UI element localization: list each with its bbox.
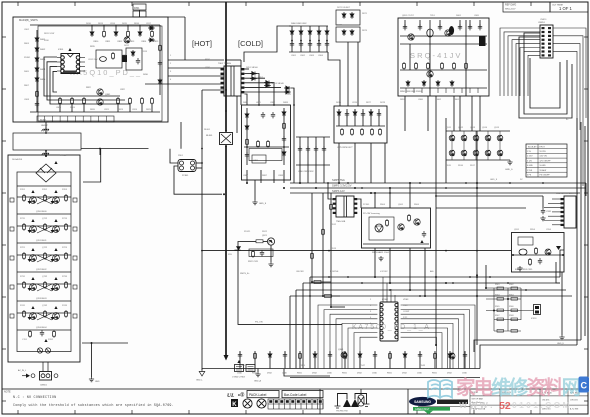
- wire row divider: [17, 329, 71, 331]
- capacitor C891: [306, 146, 310, 152]
- wire fb bottom rail: [363, 243, 429, 245]
- transistor Q742: [53, 313, 60, 320]
- capacitor: [403, 24, 407, 30]
- wire secondary: [245, 82, 274, 84]
- wire v294 to rail: [293, 88, 295, 183]
- wire grid column: [326, 26, 328, 52]
- isolation boundary line HOT/COLD: [225, 2, 227, 131]
- bell triangle 2: [351, 399, 359, 407]
- spacer: [235, 239, 237, 241]
- svg-text:S-GND: S-GND: [540, 165, 547, 167]
- svg-text:GND_D: GND_D: [557, 343, 565, 345]
- wire row subdivider b: [17, 225, 71, 227]
- diode D861: [299, 29, 303, 36]
- wire v312: [311, 193, 313, 282]
- resistor R911: [330, 203, 333, 211]
- svg-text:R813: R813: [98, 23, 104, 25]
- capacitor C885: [261, 112, 265, 118]
- svg-text:K A 7 5 0 0 _ P D _ 1 _ A: K A 7 5 0 0 _ P D _ 1 _ A: [352, 324, 429, 331]
- junction: [246, 182, 248, 184]
- logo K mark: [231, 399, 238, 407]
- open ground triangle GND_L: [199, 369, 205, 377]
- title header box CUT PAGE: [550, 2, 588, 12]
- svg-text:GND_L: GND_L: [196, 380, 204, 382]
- resistor: [83, 97, 86, 105]
- wire row subdivider c: [17, 254, 71, 256]
- watermark blue logo: [579, 377, 590, 393]
- IC U902 pins: [380, 303, 398, 338]
- capacitor C761: [40, 330, 44, 336]
- wire v486: [485, 265, 487, 288]
- svg-text:CN-LVDS CONNECTOR: CN-LVDS CONNECTOR: [556, 193, 579, 195]
- connector CN851 body: [540, 25, 553, 58]
- junction: [330, 306, 332, 308]
- svg-text:H.DRIVE: H.DRIVE: [330, 271, 339, 273]
- svg-text:Q801: Q801: [105, 94, 111, 96]
- wire bus2 drop: [302, 283, 304, 369]
- svg-text:A. N. RIM: A. N. RIM: [570, 408, 579, 411]
- diode D853: [264, 81, 271, 85]
- svg-text:R703: R703: [62, 189, 68, 191]
- svg-text:C824: C824: [132, 109, 138, 111]
- transformer T1 core: [224, 66, 241, 96]
- wire primary to T1 b: [168, 67, 224, 69]
- wire fb to bus3: [409, 248, 411, 290]
- resistor R761: [29, 330, 32, 338]
- wire stub: [83, 104, 85, 112]
- diode D802: [35, 46, 39, 53]
- wire ladder col: [315, 137, 317, 165]
- svg-text:T801 TRANS: T801 TRANS: [218, 62, 232, 65]
- svg-text:SRQ-41JV: SRQ-41JV: [505, 9, 516, 11]
- wire row divider: [17, 213, 71, 215]
- wire primary to T1: [168, 59, 224, 61]
- ground cluster: [268, 262, 273, 267]
- diode D951 dark: [556, 246, 561, 250]
- svg-text:D815: D815: [122, 23, 128, 25]
- svg-text:Q701 BU41: Q701 BU41: [36, 240, 47, 242]
- svg-text:VREF: VREF: [403, 299, 409, 301]
- transistor Q942: [449, 353, 455, 359]
- wire comp stub: [419, 351, 421, 369]
- connector CN802 pins: [41, 374, 50, 378]
- chassis ground below TL: [42, 127, 50, 131]
- wire ladder col: [299, 137, 301, 165]
- divider cluster labels: [495, 284, 514, 317]
- wire row divider: [17, 242, 71, 244]
- resistor R870: [341, 128, 344, 136]
- arrow fb: [420, 240, 423, 243]
- svg-text:Q712: Q712: [42, 218, 48, 220]
- capacitor: [468, 24, 472, 30]
- wire TR v410: [409, 44, 411, 70]
- svg-text:C887: C887: [243, 175, 249, 177]
- svg-text:Q911: Q911: [446, 127, 452, 129]
- resistor R732: [44, 281, 47, 289]
- IC U902 top wires: [383, 277, 395, 302]
- diode dark left: [28, 317, 32, 320]
- svg-text:D862: D862: [436, 99, 442, 101]
- transistor Q900: [449, 135, 455, 141]
- svg-text:cⓈ: cⓈ: [238, 391, 244, 397]
- wire opto out b: [196, 167, 202, 169]
- svg-text:GND_S: GND_S: [259, 203, 267, 205]
- diode D881: [245, 112, 249, 119]
- wire rect drop 3: [291, 88, 294, 105]
- output voltage table: [526, 144, 567, 177]
- transistor Q804: [124, 37, 130, 43]
- svg-text:R916: R916: [458, 165, 464, 167]
- diode D804: [35, 66, 39, 73]
- wire v562: [561, 272, 563, 335]
- diode dark left: [28, 201, 32, 204]
- svg-text:R803: R803: [24, 43, 30, 45]
- transistor Q732: [53, 284, 60, 291]
- svg-text:REF DWG: REF DWG: [505, 4, 516, 7]
- svg-text:R741: R741: [20, 305, 26, 307]
- resistor R819: [159, 44, 162, 52]
- capacitor C861: [299, 41, 303, 47]
- wire T2 out: [357, 199, 361, 208]
- svg-text:R820: R820: [90, 109, 96, 111]
- rail stub right: [73, 314, 77, 318]
- svg-text:S5V: S5V: [228, 254, 233, 256]
- divider cluster wires: [486, 288, 534, 331]
- svg-text:R809: R809: [70, 107, 76, 109]
- svg-text:SMPS 12V: SMPS 12V: [332, 189, 345, 193]
- ground below blockA: [252, 200, 257, 205]
- wire v460: [459, 96, 461, 131]
- wire T1 top stub: [240, 60, 242, 66]
- grid column wires: [452, 131, 500, 160]
- svg-text:OSC: OSC: [403, 305, 408, 307]
- svg-text:BD801: BD801: [40, 120, 47, 122]
- svg-text:D860 D861 D862: D860 D861 D862: [291, 23, 307, 25]
- rail stub left: [10, 314, 14, 318]
- cell strip dividers: [45, 116, 107, 122]
- svg-text:CY802 CY803: CY802 CY803: [232, 377, 246, 379]
- wire loop pin4: [53, 71, 57, 92]
- svg-text:L881: L881: [253, 160, 259, 162]
- resistor R731: [23, 281, 26, 289]
- diode D803: [35, 56, 39, 63]
- wire loop to left block: [45, 150, 47, 156]
- wire rect drop 1: [257, 74, 259, 106]
- wire r914 link: [312, 281, 331, 283]
- startup cell block: [126, 48, 142, 70]
- svg-text:C: C: [580, 381, 587, 391]
- wire TR rail3: [400, 87, 487, 89]
- svg-text:Q722: Q722: [42, 247, 48, 249]
- svg-text:R713: R713: [62, 218, 68, 220]
- svg-text:C864: C864: [318, 55, 324, 57]
- wire rect drop 4: [245, 94, 248, 105]
- IC U801 notch: [67, 54, 74, 58]
- wire rail to cap: [436, 195, 543, 197]
- svg-text:R861: R861: [454, 99, 460, 101]
- wire stub: [151, 104, 153, 112]
- arrow: [31, 248, 34, 251]
- svg-text:PACK-Label: PACK-Label: [249, 393, 267, 397]
- svg-text:C809: C809: [56, 107, 62, 109]
- resistor R741: [23, 310, 26, 318]
- transistor Q853: [427, 71, 433, 77]
- wire TR rail2: [400, 69, 487, 71]
- dark transistor Q803: [122, 55, 127, 62]
- svg-text:ON/OFF: ON/OFF: [296, 271, 305, 273]
- capacitor C886: [271, 112, 275, 118]
- svg-text:[HOT]: [HOT]: [192, 39, 212, 48]
- wire right edge bottom bend2: [474, 340, 581, 352]
- svg-text:Q732: Q732: [42, 276, 48, 278]
- resistor R881: [246, 138, 249, 146]
- diode D9411: [403, 352, 407, 359]
- wire loop pin1: [44, 57, 120, 96]
- resistor R701: [23, 194, 26, 202]
- secondary rectifier block outline: [242, 105, 291, 180]
- wire loop A: [524, 33, 567, 114]
- IC U801 label smudge: [63, 71, 76, 74]
- svg-text:Q742: Q742: [42, 305, 48, 307]
- wire bus4: [290, 295, 572, 297]
- transistor Q951: [545, 249, 551, 255]
- svg-text:R858 C859 D861 ZD851: R858 C859 D861 ZD851: [400, 91, 423, 93]
- svg-text:R702: R702: [42, 189, 48, 191]
- svg-text:K: K: [232, 402, 237, 408]
- arrow: [31, 219, 34, 222]
- diode D883: [282, 110, 286, 117]
- resistor R811: [103, 30, 106, 38]
- junction: [338, 182, 340, 184]
- op-amp U801 PWM IC body: [61, 54, 80, 74]
- svg-text:R965: R965: [495, 306, 500, 308]
- capacitor C883: [282, 136, 286, 142]
- arrow: [31, 190, 34, 193]
- wire bus right bend: [560, 250, 564, 277]
- svg-text:R967: R967: [495, 315, 500, 317]
- diode D870: [337, 110, 341, 117]
- svg-text:R966: R966: [509, 306, 514, 308]
- svg-text:C931: C931: [546, 211, 552, 213]
- svg-text:R904: R904: [380, 204, 386, 206]
- zener ZD921: [235, 247, 241, 251]
- svg-text:R922: R922: [262, 231, 268, 233]
- resistor R947: [344, 352, 347, 360]
- transistor Q801: [97, 89, 103, 95]
- wire grid column: [291, 26, 293, 52]
- wire loop B: [519, 37, 572, 118]
- capacitor C813: [136, 58, 140, 64]
- wire TR stub: [439, 20, 441, 28]
- transformer T1 core lines: [231, 66, 234, 96]
- wire grid top: [289, 25, 328, 27]
- svg-text:GND_S: GND_S: [490, 179, 498, 181]
- transistor Q914: [497, 150, 503, 156]
- capacitor C940: [238, 352, 242, 358]
- wire left block link: [83, 149, 101, 182]
- resistor R853: [441, 62, 444, 70]
- wire stub: [103, 25, 105, 30]
- svg-text:IC801: IC801: [58, 49, 64, 51]
- capacitor C860: [290, 41, 294, 47]
- svg-text:5 5VS: 5 5VS: [527, 170, 533, 172]
- svg-text:GND_S: GND_S: [505, 169, 513, 171]
- wire stub: [127, 25, 129, 30]
- arrow: [54, 219, 57, 222]
- wire comp stub: [449, 351, 451, 369]
- wire: [139, 10, 141, 17]
- wire stub: [117, 104, 119, 112]
- capacitor C892: [314, 146, 318, 152]
- wire blockA left col: [246, 108, 248, 165]
- junction: [370, 192, 372, 194]
- wire comp stub: [464, 351, 466, 369]
- svg-text:TMS-10B: TMS-10B: [336, 221, 346, 223]
- diode D805: [35, 76, 39, 83]
- wire opto to boundary: [174, 166, 222, 194]
- junction: [409, 182, 411, 184]
- svg-text:R859: R859: [400, 99, 406, 101]
- svg-text:52: 52: [499, 400, 511, 412]
- wire loop pin2: [47, 62, 125, 100]
- diode D850: [406, 80, 410, 87]
- Samsung logo ellipse: [409, 397, 436, 406]
- wire comp stub: [254, 351, 256, 369]
- wire rail to fb 2: [389, 188, 391, 208]
- wire comp stub: [359, 351, 361, 369]
- transistor Q921 dark: [267, 238, 274, 245]
- wire bus1: [310, 276, 560, 278]
- snubber box upper: [336, 10, 360, 25]
- rail stub left: [10, 227, 14, 231]
- junction: [374, 276, 376, 278]
- regulator IC952 body: [519, 249, 527, 255]
- svg-text:3 12V: 3 12V: [527, 160, 533, 162]
- svg-text:C860: C860: [418, 99, 424, 101]
- transformer T902 core: [336, 196, 354, 217]
- wire comp stub: [404, 351, 406, 369]
- connector CN852 pins: [561, 198, 564, 226]
- svg-text:R948: R948: [420, 365, 426, 367]
- wire rect drop 2: [271, 83, 274, 106]
- wire loop to left block: [81, 148, 149, 150]
- bell triangle 1: [343, 399, 351, 407]
- wire ladder to rail: [307, 165, 309, 183]
- diode D872: [353, 110, 357, 117]
- wire secondary: [245, 68, 250, 70]
- junction: [512, 254, 514, 256]
- resistor R722: [44, 252, 47, 260]
- wire grid column: [318, 26, 320, 52]
- photocoupler PC801 pins: [180, 161, 195, 170]
- svg-text:R831: R831: [205, 59, 211, 61]
- svg-text:KIA431 R953 C955: KIA431 R953 C955: [515, 268, 533, 271]
- wire row divider 0: [17, 185, 71, 187]
- wire stub: [115, 25, 117, 30]
- arrow: [54, 190, 57, 193]
- cross coupling wires: [37, 313, 52, 320]
- PACK-Label box: [247, 391, 279, 398]
- wire TR stub: [479, 20, 481, 28]
- watermark book logo: [428, 380, 452, 398]
- svg-text:Q914: Q914: [482, 127, 488, 129]
- resistor R951: [535, 247, 538, 255]
- ground grid: [507, 160, 512, 165]
- junction: [424, 295, 426, 297]
- arrow: [54, 277, 57, 280]
- svg-text:C863: C863: [309, 55, 315, 57]
- transistor Q721: [30, 255, 37, 262]
- resistor R711: [23, 223, 26, 231]
- wire secondary: [245, 73, 258, 75]
- hanging symbol bracket 1: [338, 394, 348, 407]
- diode D852: [436, 80, 440, 87]
- svg-text:C802: C802: [24, 29, 30, 31]
- junction: [299, 182, 301, 184]
- wire fb to bus1: [374, 248, 376, 277]
- junction: [225, 130, 227, 132]
- wire v436: [435, 96, 437, 208]
- svg-text:4 GND: 4 GND: [527, 165, 533, 167]
- diode dark right: [51, 201, 55, 204]
- capacitor C9415: [463, 352, 467, 358]
- junction: [225, 145, 227, 147]
- resistor R854: [453, 62, 456, 70]
- svg-text:[COLD]: [COLD]: [238, 39, 263, 48]
- wire bus3: [296, 289, 566, 291]
- transistor Q701: [30, 197, 37, 204]
- transistor Q851: [408, 34, 414, 40]
- diode D821: [148, 38, 155, 42]
- wire grid column: [300, 26, 302, 52]
- diode D854: [264, 84, 271, 88]
- divider cluster resistors: [497, 287, 518, 332]
- svg-text:Q703 BU43: Q703 BU43: [36, 298, 47, 300]
- svg-text:D878: D878: [380, 102, 386, 104]
- svg-text:K A 5 Q 1 0 _ P D _ _: K A 5 Q 1 0 _ P D _ _: [70, 68, 141, 77]
- wire grid rail top: [446, 130, 510, 132]
- wire T1 pin drop b: [240, 96, 242, 105]
- wire right edge 1: [576, 118, 578, 345]
- wire aux to grid: [404, 96, 406, 131]
- fuse symbol F701: [37, 348, 42, 353]
- wire primary to T1 d: [145, 83, 224, 85]
- wire left column: [36, 30, 38, 112]
- transistor Q911: [461, 150, 467, 156]
- wire blockB col: [354, 109, 356, 126]
- transistor Q731: [30, 284, 37, 291]
- svg-text:BLUE AT OUTPUT: BLUE AT OUTPUT: [528, 146, 546, 149]
- svg-text:PS ON/OFF: PS ON/OFF: [540, 175, 551, 177]
- junction: [476, 182, 478, 184]
- diode D820: [148, 26, 155, 30]
- snubber box lower: [336, 27, 360, 42]
- svg-text:NOTE: NOTE: [4, 391, 11, 394]
- diode D884: [282, 150, 286, 157]
- svg-text:RL801: RL801: [204, 129, 211, 131]
- transistor Q912: [473, 150, 479, 156]
- svg-text:D804: D804: [40, 69, 46, 71]
- svg-text:C862: C862: [300, 55, 306, 57]
- fuse symbol F702: [45, 348, 50, 353]
- diode D812: [114, 30, 118, 37]
- diode D874: [369, 110, 373, 117]
- svg-text:C876: C876: [352, 102, 358, 104]
- capacitor: [418, 24, 422, 30]
- shunt regulator U901 TL431: [375, 224, 383, 232]
- junction: [311, 281, 313, 283]
- resistor R914 horizontal: [314, 281, 321, 284]
